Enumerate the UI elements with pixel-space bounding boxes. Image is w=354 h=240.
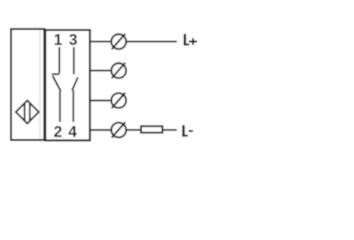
terminal 3 slash	[112, 93, 126, 109]
terminal 2 slash	[112, 63, 126, 79]
NO contact blade (pins 3-4)	[72, 77, 78, 90]
wire terminal 1 to L+	[126, 41, 177, 43]
NC contact seat tick	[52, 73, 60, 75]
terminal 3 (screw terminal circle)	[111, 93, 126, 108]
wire terminal 4 to load resistor	[126, 129, 140, 131]
NC contact blade (pins 1-2)	[53, 76, 61, 91]
svg-text:1: 1	[54, 32, 63, 49]
wire pin3 upper lead	[73, 47, 75, 74]
scan ghost line inside sensor body	[39, 30, 41, 139]
terminal 1 (screw terminal circle)	[111, 34, 126, 49]
load resistor	[141, 126, 162, 133]
terminal 1 slash	[112, 34, 126, 50]
node L- label	[182, 125, 193, 136]
wire box to terminal 1	[90, 41, 111, 43]
wire pin1 upper lead	[58, 47, 60, 74]
wire pin2 lower lead	[59, 91, 61, 122]
node L+ label	[184, 34, 197, 45]
wire box to terminal 3	[90, 100, 111, 102]
wire pin4 lower lead	[72, 90, 74, 122]
terminal 4 slash	[112, 122, 126, 138]
wire box to terminal 2	[90, 70, 111, 72]
inductive proximity sensor symbol (diamond)	[16, 101, 39, 124]
svg-text:3: 3	[69, 32, 78, 49]
sensor body rectangle	[11, 29, 44, 140]
switching element box	[45, 30, 90, 140]
svg-text:4: 4	[68, 124, 77, 141]
terminal 2 (screw terminal circle)	[111, 63, 126, 78]
svg-text:2: 2	[54, 124, 63, 141]
terminal 4 (screw terminal circle)	[111, 123, 126, 138]
wire box to terminal 4	[90, 129, 111, 131]
wire load resistor to L-	[163, 129, 177, 131]
